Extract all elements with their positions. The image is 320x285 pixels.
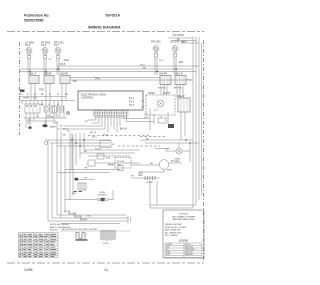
svg-text:P5-3 W: P5-3 W bbox=[74, 217, 82, 219]
small terminal circles bbox=[47, 111, 70, 117]
svg-text:GY: GY bbox=[84, 178, 88, 180]
right dashed oven box bbox=[141, 92, 175, 115]
svg-text:W-12: W-12 bbox=[103, 135, 109, 137]
svg-text:OR: OR bbox=[84, 168, 88, 170]
svg-text:LIGHT: LIGHT bbox=[163, 92, 171, 95]
svg-text:LEGEND: LEGEND bbox=[179, 241, 189, 243]
svg-text:P4-6: P4-6 bbox=[41, 44, 47, 47]
left cluster bus wire bbox=[20, 100, 76, 102]
left dashed border bbox=[19, 42, 21, 135]
svg-text:SENSOR: SENSOR bbox=[98, 194, 107, 196]
svg-text:INF: INF bbox=[73, 80, 77, 83]
left cluster top corner wire bbox=[20, 90, 25, 93]
surface unit RR right bbox=[151, 41, 161, 76]
switch right RR bbox=[158, 73, 171, 96]
svg-text:P4-1: P4-1 bbox=[159, 60, 164, 62]
EOC pin strip bbox=[94, 110, 129, 117]
EOC electronic oven control bbox=[78, 91, 143, 110]
svg-text:P2-1: P2-1 bbox=[26, 123, 31, 125]
right wire bus verticals bbox=[192, 37, 194, 208]
svg-text:P11-2: P11-2 bbox=[95, 149, 101, 151]
svg-text:P4-5: P4-5 bbox=[25, 44, 31, 47]
svg-text:P4-8: P4-8 bbox=[60, 63, 66, 66]
surface unit LF bbox=[25, 42, 34, 76]
svg-text:DOOR: DOOR bbox=[117, 161, 124, 163]
top right feed wires bbox=[168, 34, 199, 44]
switch RF bbox=[44, 73, 54, 84]
svg-text:Publication No.: Publication No. bbox=[24, 14, 50, 18]
svg-text:WIRING SHOWN: WIRING SHOWN bbox=[165, 224, 182, 226]
svg-text:NOTICE: NOTICE bbox=[179, 214, 188, 216]
svg-text:14: 14 bbox=[104, 268, 108, 272]
svg-text:OVEN: OVEN bbox=[23, 98, 30, 100]
switch interconnect wires bbox=[31, 78, 193, 101]
svg-text:WIRING DIAGRAM: WIRING DIAGRAM bbox=[88, 25, 120, 29]
P9 connector bbox=[70, 133, 95, 200]
left color code table bbox=[19, 233, 59, 258]
lower horizontal runs bbox=[48, 208, 193, 224]
svg-text:ARE 14 GA UNLESS: ARE 14 GA UNLESS bbox=[50, 226, 71, 229]
svg-text:AND OVEN OFF: AND OVEN OFF bbox=[165, 229, 181, 232]
verticals to bottom wire bbox=[149, 181, 151, 208]
surface unit LR right bbox=[159, 40, 187, 76]
svg-text:MTR: MTR bbox=[167, 170, 172, 172]
svg-text:SW RF: SW RF bbox=[44, 73, 52, 76]
svg-text:P2-3: P2-3 bbox=[53, 123, 58, 125]
svg-text:BEFORE SERVICING: BEFORE SERVICING bbox=[173, 219, 195, 221]
svg-text:5995378580: 5995378580 bbox=[24, 19, 44, 23]
mid small boxes wires bbox=[80, 149, 140, 171]
bottom dashed border bbox=[7, 262, 204, 264]
broil element symbol bbox=[58, 106, 64, 112]
svg-text:WITH DOOR CLOSED: WITH DOOR CLOSED bbox=[165, 227, 187, 229]
oven lamp bbox=[165, 143, 190, 163]
svg-text:ALL WIRES 600V: ALL WIRES 600V bbox=[165, 231, 182, 234]
left cluster lower wires bbox=[24, 106, 66, 124]
svg-text:10/96: 10/96 bbox=[24, 268, 33, 272]
svg-text:GY-16: GY-16 bbox=[64, 211, 71, 213]
svg-text:SW LR: SW LR bbox=[175, 73, 183, 76]
bottom caption row bbox=[60, 229, 130, 245]
svg-text:TEF351A: TEF351A bbox=[105, 14, 120, 18]
svg-text:P4-7: P4-7 bbox=[54, 44, 60, 47]
thermostat symbol bbox=[51, 106, 57, 113]
dashed run to lamp bbox=[118, 145, 160, 147]
svg-text:RR 1250: RR 1250 bbox=[151, 41, 161, 44]
mid wire grid bbox=[45, 129, 116, 221]
svg-text:TOD: TOD bbox=[39, 89, 44, 92]
svg-text:INF SW: INF SW bbox=[158, 88, 167, 90]
svg-text:BK W R BU GY OR Y BR V GN PR T: BK W R BU GY OR Y BR V GN PR T bbox=[62, 229, 99, 231]
svg-text:NOTED: NOTED bbox=[50, 230, 58, 232]
main bus wires bbox=[20, 59, 199, 75]
svg-text:RD: RD bbox=[181, 42, 185, 44]
svg-text:CONN: CONN bbox=[146, 182, 153, 184]
top dashed border bbox=[7, 31, 204, 33]
svg-text:NOTE: ALL WIRES: NOTE: ALL WIRES bbox=[50, 223, 69, 226]
svg-text:CONTROL: CONTROL bbox=[81, 96, 94, 100]
svg-text:105 C RATED: 105 C RATED bbox=[165, 234, 179, 237]
right legend box bbox=[163, 210, 204, 258]
right connector boxes below oven box bbox=[140, 112, 199, 144]
surface unit RR bbox=[54, 42, 69, 76]
oven temp sensor bbox=[65, 190, 113, 201]
left bottom labels bbox=[26, 104, 68, 131]
note text above table bbox=[50, 223, 71, 232]
svg-text:LAMP: LAMP bbox=[174, 160, 180, 163]
svg-text:BK-12: BK-12 bbox=[90, 132, 97, 134]
svg-text:V-16: V-16 bbox=[86, 216, 91, 218]
svg-text:INF SW: INF SW bbox=[174, 88, 183, 90]
svg-text:P1-3: P1-3 bbox=[129, 104, 135, 107]
door switch dashed box bbox=[115, 158, 131, 169]
svg-text:P5-2 BK: P5-2 BK bbox=[68, 214, 77, 216]
oven motor bbox=[108, 160, 182, 172]
svg-text:BU: BU bbox=[150, 163, 153, 165]
svg-text:W: W bbox=[57, 104, 59, 106]
oven selector switch box bbox=[25, 104, 40, 113]
svg-text:P5-1: P5-1 bbox=[92, 137, 97, 139]
switch right LR bbox=[174, 73, 192, 99]
svg-text:W: W bbox=[28, 119, 30, 121]
svg-text:40A: 40A bbox=[179, 61, 184, 64]
switch RR bbox=[60, 73, 70, 84]
svg-text:SW RR: SW RR bbox=[159, 73, 167, 76]
svg-text:P4-6: P4-6 bbox=[95, 78, 101, 81]
right dashed border bbox=[203, 40, 205, 260]
svg-text:P5-4 R: P5-4 R bbox=[80, 220, 87, 222]
wires below EOC pins bbox=[57, 114, 154, 136]
surface unit RF bbox=[41, 42, 51, 76]
bake element symbol bbox=[44, 106, 50, 112]
svg-text:OVEN: OVEN bbox=[148, 92, 155, 95]
right relay box bbox=[177, 95, 190, 112]
svg-text:P4-3: P4-3 bbox=[140, 64, 145, 66]
left component row labels bbox=[19, 94, 68, 100]
svg-text:P10-2: P10-2 bbox=[103, 243, 110, 245]
svg-text:BK-14: BK-14 bbox=[120, 128, 127, 131]
svg-text:DLB: DLB bbox=[106, 158, 111, 160]
switch LF bbox=[29, 73, 39, 84]
svg-text:HTR: HTR bbox=[166, 254, 171, 256]
svg-text:P1 CONN: P1 CONN bbox=[173, 34, 184, 37]
lower mid wires bbox=[57, 170, 160, 185]
svg-text:BAKE: BAKE bbox=[50, 126, 56, 129]
svg-text:HEATER: HEATER bbox=[185, 253, 194, 256]
svg-text:SW RR: SW RR bbox=[60, 73, 68, 76]
svg-text:SW LF: SW LF bbox=[29, 73, 37, 76]
svg-text:40A: 40A bbox=[64, 58, 69, 62]
svg-text:RELAY: RELAY bbox=[177, 95, 185, 98]
